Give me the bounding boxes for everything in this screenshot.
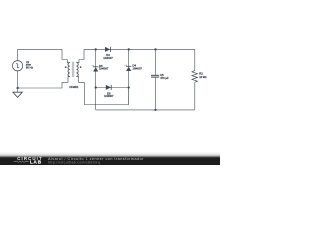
- transformer XFMR1 right winding: [76, 63, 78, 77]
- wire: primary top step to winding: [62, 49, 70, 62]
- svg-text:60 Hz: 60 Hz: [26, 66, 34, 70]
- svg-text:1N4007: 1N4007: [103, 56, 113, 60]
- svg-text:470 µF: 470 µF: [160, 76, 169, 80]
- node V+: D3 cathode / D4 cathode junction: [128, 48, 130, 50]
- wire: capacitor branch: [155, 49, 157, 110]
- node AC2: D6 cathode / D4 anode junction: [128, 86, 130, 88]
- svg-text:LAB: LAB: [30, 160, 42, 165]
- capacitor C5: [151, 75, 159, 77]
- wire: primary top rail: [18, 48, 62, 50]
- svg-text:10 kΩ: 10 kΩ: [199, 75, 206, 79]
- svg-text:1N4007: 1N4007: [104, 94, 114, 98]
- transformer phase dot left: [65, 66, 67, 68]
- ground: [13, 92, 22, 97]
- svg-text:1N4007: 1N4007: [99, 67, 109, 71]
- node: source negative / ground junction: [16, 87, 18, 89]
- wire: bottom output rail: [96, 109, 195, 111]
- wire: right bridge vertical: [128, 49, 130, 104]
- transformer phase dot right: [80, 66, 82, 68]
- node AC1: secondary top / D3 anode / D5 cathode: [95, 48, 97, 50]
- wire: primary bottom lead staircase: [18, 76, 70, 88]
- wire: bridge bottom wire: [96, 87, 129, 89]
- svg-text:1N4007: 1N4007: [133, 66, 143, 70]
- voltage source V1: [12, 61, 22, 71]
- wire: left bridge vertical: [95, 49, 97, 110]
- CircuitLab logo: [14, 156, 43, 164]
- wire: source top lead: [17, 49, 19, 60]
- diode D3: [103, 47, 113, 60]
- svg-text:R2: R2: [199, 71, 203, 75]
- wire: secondary top rail: [84, 48, 195, 50]
- node V- at capacitor bottom: [154, 109, 156, 111]
- diode D5: [92, 64, 109, 72]
- transformer XFMR1 left winding: [68, 63, 70, 77]
- wire: resistor branch: [194, 49, 196, 110]
- resistor R2: [192, 71, 197, 83]
- svg-text:http://circuitlab.com/c8dmxq: http://circuitlab.com/c8dmxq: [48, 161, 100, 165]
- node V-: D5 anode / D6 anode junction: [95, 86, 97, 88]
- transformer XFMR1 core: [72, 62, 74, 77]
- diode D4: [125, 64, 143, 71]
- wire: secondary top step: [76, 49, 84, 62]
- svg-text:XFMR1: XFMR1: [69, 85, 79, 89]
- node V+ at capacitor branch: [154, 48, 156, 50]
- wire: secondary bottom staircase (AC2): [76, 76, 128, 104]
- wire: source bottom lead: [17, 71, 19, 92]
- diode D6: [104, 85, 114, 98]
